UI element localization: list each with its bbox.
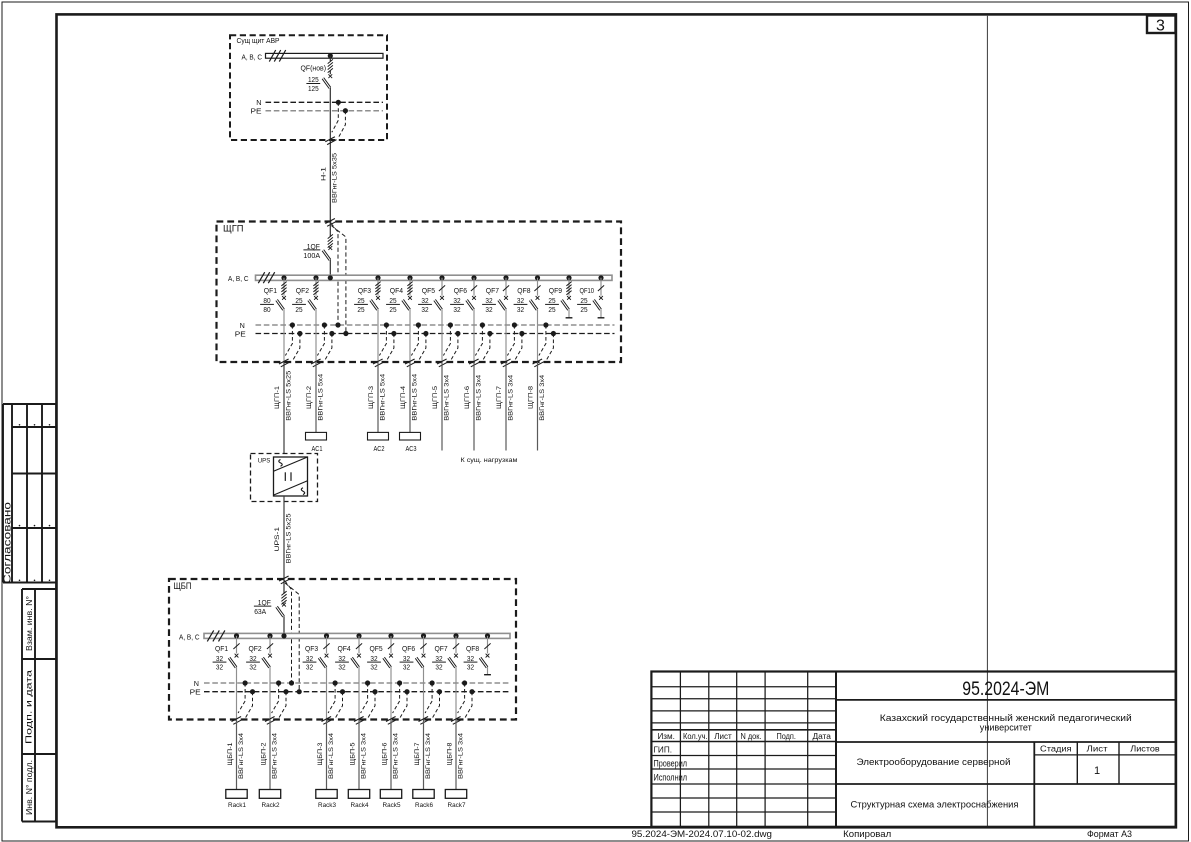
svg-text:32: 32 [517, 296, 524, 305]
svg-text:ВВГнг-LS 5х4: ВВГнг-LS 5х4 [317, 373, 324, 420]
svg-text:AC2: AC2 [374, 444, 385, 453]
svg-text:PE: PE [251, 107, 262, 116]
svg-text:32: 32 [421, 296, 428, 305]
svg-text:32: 32 [485, 296, 492, 305]
svg-text:Кол.уч.: Кол.уч. [683, 731, 708, 741]
svg-text:ЩГП-7: ЩГП-7 [496, 386, 503, 409]
svg-text:1: 1 [1094, 765, 1100, 777]
svg-text:Rack5: Rack5 [383, 802, 401, 809]
svg-text:университет: университет [980, 723, 1033, 734]
svg-text:QF4: QF4 [390, 286, 403, 295]
svg-text:32: 32 [453, 296, 460, 305]
svg-text:25: 25 [357, 296, 364, 305]
svg-text:QF2: QF2 [249, 644, 262, 653]
svg-text:3: 3 [1156, 18, 1165, 35]
svg-text:QF6: QF6 [454, 286, 467, 295]
svg-text:ВВГнг-LS 3х4: ВВГнг-LS 3х4 [425, 733, 432, 779]
svg-text:32: 32 [370, 654, 377, 663]
svg-text:25: 25 [580, 296, 587, 305]
svg-text:Rack7: Rack7 [448, 802, 466, 809]
svg-text:95.2024-ЭМ-2024.07.10-02.dwg: 95.2024-ЭМ-2024.07.10-02.dwg [632, 829, 773, 839]
svg-text:А, В, С: А, В, С [242, 53, 263, 62]
svg-text:ВВГнг-LS 3х4: ВВГнг-LS 3х4 [457, 733, 464, 779]
svg-text:QF9: QF9 [549, 286, 562, 295]
svg-text:32: 32 [467, 654, 474, 663]
svg-text:ВВГнг-LS 3х4: ВВГнг-LS 3х4 [507, 374, 514, 420]
svg-text:125: 125 [308, 84, 319, 93]
svg-text:Rack2: Rack2 [262, 802, 280, 809]
svg-text:32: 32 [435, 663, 442, 672]
svg-text:Исполнил: Исполнил [654, 772, 688, 782]
svg-text:32: 32 [216, 654, 223, 663]
svg-text:UPS: UPS [258, 457, 271, 464]
svg-text:ЩГП: ЩГП [223, 223, 244, 233]
svg-text:ЩБП-8: ЩБП-8 [447, 742, 454, 765]
svg-text:QF5: QF5 [370, 644, 383, 653]
svg-text:К сущ. нагрузкам: К сущ. нагрузкам [461, 457, 518, 464]
svg-text:QF3: QF3 [358, 286, 371, 295]
svg-text:25: 25 [548, 305, 555, 314]
svg-text:Согласовано: Согласовано [3, 502, 14, 584]
svg-text:Копировал: Копировал [843, 829, 891, 839]
svg-text:25: 25 [580, 305, 587, 314]
svg-text:32: 32 [403, 663, 410, 672]
svg-text:QF7: QF7 [486, 286, 499, 295]
svg-text:QF8: QF8 [517, 286, 530, 295]
svg-text:ВВГнг-LS 3х4: ВВГнг-LS 3х4 [475, 374, 482, 420]
svg-text:25: 25 [548, 296, 555, 305]
svg-text:ЩБП-7: ЩБП-7 [414, 742, 421, 765]
svg-text:ВВГнг-LS 3х4: ВВГнг-LS 3х4 [539, 374, 546, 420]
svg-text:ЩГП-3: ЩГП-3 [368, 386, 375, 409]
svg-text:Подп.: Подп. [776, 731, 796, 741]
svg-text:32: 32 [249, 663, 256, 672]
svg-text:ЩБП-6: ЩБП-6 [382, 742, 389, 765]
svg-text:ЩБП-5: ЩБП-5 [350, 742, 357, 765]
svg-text:32: 32 [435, 654, 442, 663]
svg-text:ВВГнг-LS 5х25: ВВГнг-LS 5х25 [285, 370, 292, 420]
svg-text:Стадия: Стадия [1040, 744, 1072, 754]
svg-text:Лист: Лист [714, 731, 732, 741]
svg-text:32: 32 [517, 305, 524, 314]
svg-text:ВВГнг-LS 5х4: ВВГнг-LS 5х4 [379, 373, 386, 420]
svg-text:QF5: QF5 [422, 286, 435, 295]
svg-text:ЩБП: ЩБП [174, 581, 192, 591]
svg-text:Сущ щит АВР: Сущ щит АВР [237, 36, 280, 45]
svg-text:32: 32 [338, 663, 345, 672]
svg-text:QF6: QF6 [402, 644, 415, 653]
svg-text:32: 32 [485, 305, 492, 314]
svg-text:Электрооборудование серверной: Электрооборудование серверной [857, 757, 1011, 768]
svg-text:Листов: Листов [1130, 744, 1160, 754]
svg-text:ВВГнг-LS 3х4: ВВГнг-LS 3х4 [238, 733, 245, 779]
svg-text:32: 32 [453, 305, 460, 314]
svg-text:Rack1: Rack1 [228, 802, 246, 809]
svg-text:А, В, С: А, В, С [179, 632, 200, 641]
svg-text:PE: PE [190, 688, 201, 697]
svg-text:Н-1: Н-1 [320, 167, 327, 181]
svg-text:125: 125 [308, 75, 319, 84]
svg-text:Изм.: Изм. [657, 731, 675, 741]
svg-text:Структурная схема электроснабж: Структурная схема электроснабжения [851, 800, 1019, 811]
svg-text:32: 32 [421, 305, 428, 314]
svg-text:25: 25 [357, 305, 364, 314]
svg-text:ВВГнг-LS 3х4: ВВГнг-LS 3х4 [328, 733, 335, 779]
svg-text:QF(нов): QF(нов) [301, 64, 327, 73]
svg-text:Дата: Дата [812, 731, 831, 741]
svg-text:QF7: QF7 [435, 644, 448, 653]
svg-text:ВВГнг-LS 5х25: ВВГнг-LS 5х25 [285, 513, 292, 563]
svg-text:Взам. инв. N°: Взам. инв. N° [25, 596, 34, 651]
svg-text:Подп. и дата: Подп. и дата [24, 670, 34, 744]
svg-text:ВВГнг-LS 3х4: ВВГнг-LS 3х4 [392, 733, 399, 779]
svg-text:Rack4: Rack4 [351, 802, 369, 809]
svg-text:ВВГнг-LS 3х4: ВВГнг-LS 3х4 [271, 733, 278, 779]
svg-text:N док.: N док. [741, 731, 762, 741]
svg-text:32: 32 [370, 663, 377, 672]
svg-text:QF1: QF1 [215, 644, 228, 653]
svg-text:Rack6: Rack6 [415, 802, 433, 809]
svg-text:QF1: QF1 [264, 286, 277, 295]
svg-text:ВВГнг-LS 5х4: ВВГнг-LS 5х4 [411, 373, 418, 420]
svg-text:PE: PE [235, 329, 246, 338]
svg-text:25: 25 [295, 305, 302, 314]
svg-text:ЩГП-1: ЩГП-1 [274, 386, 281, 409]
svg-text:80: 80 [263, 305, 270, 314]
svg-text:25: 25 [389, 305, 396, 314]
svg-text:QF4: QF4 [338, 644, 351, 653]
svg-text:32: 32 [403, 654, 410, 663]
svg-text:32: 32 [306, 654, 313, 663]
svg-text:Rack3: Rack3 [318, 802, 336, 809]
svg-text:32: 32 [467, 663, 474, 672]
svg-text:UPS-1: UPS-1 [274, 527, 281, 552]
svg-text:ЩГП-8: ЩГП-8 [528, 386, 535, 409]
svg-text:Лист: Лист [1087, 744, 1108, 754]
svg-text:AC3: AC3 [406, 444, 417, 453]
svg-text:Проверил: Проверил [654, 758, 688, 768]
svg-text:ЩГП-5: ЩГП-5 [432, 386, 439, 409]
svg-text:ЩГП-6: ЩГП-6 [464, 386, 471, 409]
svg-text:ВВГнг-LS 3х4: ВВГнг-LS 3х4 [360, 733, 367, 779]
svg-text:Формат А3: Формат А3 [1087, 829, 1132, 839]
svg-text:QF10: QF10 [580, 286, 595, 295]
svg-text:ЩБП-1: ЩБП-1 [227, 742, 234, 765]
svg-text:25: 25 [389, 296, 396, 305]
svg-text:Инв. N° подл.: Инв. N° подл. [25, 760, 34, 815]
svg-text:А, В, С: А, В, С [228, 274, 249, 283]
svg-text:32: 32 [306, 663, 313, 672]
svg-text:25: 25 [295, 296, 302, 305]
svg-text:ЩБП-3: ЩБП-3 [317, 742, 324, 765]
svg-text:32: 32 [216, 663, 223, 672]
svg-text:ВВГнг-LS 3х4: ВВГнг-LS 3х4 [443, 374, 450, 420]
svg-text:QF2: QF2 [296, 286, 309, 295]
svg-text:QF8: QF8 [466, 644, 479, 653]
svg-text:32: 32 [338, 654, 345, 663]
svg-text:ЩБП-2: ЩБП-2 [261, 742, 268, 765]
svg-text:63А: 63А [254, 607, 266, 616]
svg-text:1QF: 1QF [258, 598, 272, 607]
svg-text:ВВГнг-LS 5х35: ВВГнг-LS 5х35 [332, 153, 339, 203]
svg-text:ЩГП-4: ЩГП-4 [400, 386, 407, 409]
svg-text:AC1: AC1 [312, 444, 323, 453]
svg-text:N: N [194, 679, 199, 688]
svg-text:ЩГП-2: ЩГП-2 [306, 386, 313, 409]
svg-text:ГИП.: ГИП. [654, 746, 672, 755]
svg-text:100А: 100А [303, 251, 320, 260]
svg-text:QF3: QF3 [305, 644, 318, 653]
svg-text:32: 32 [249, 654, 256, 663]
svg-text:80: 80 [263, 296, 270, 305]
svg-text:95.2024-ЭМ: 95.2024-ЭМ [962, 679, 1049, 700]
